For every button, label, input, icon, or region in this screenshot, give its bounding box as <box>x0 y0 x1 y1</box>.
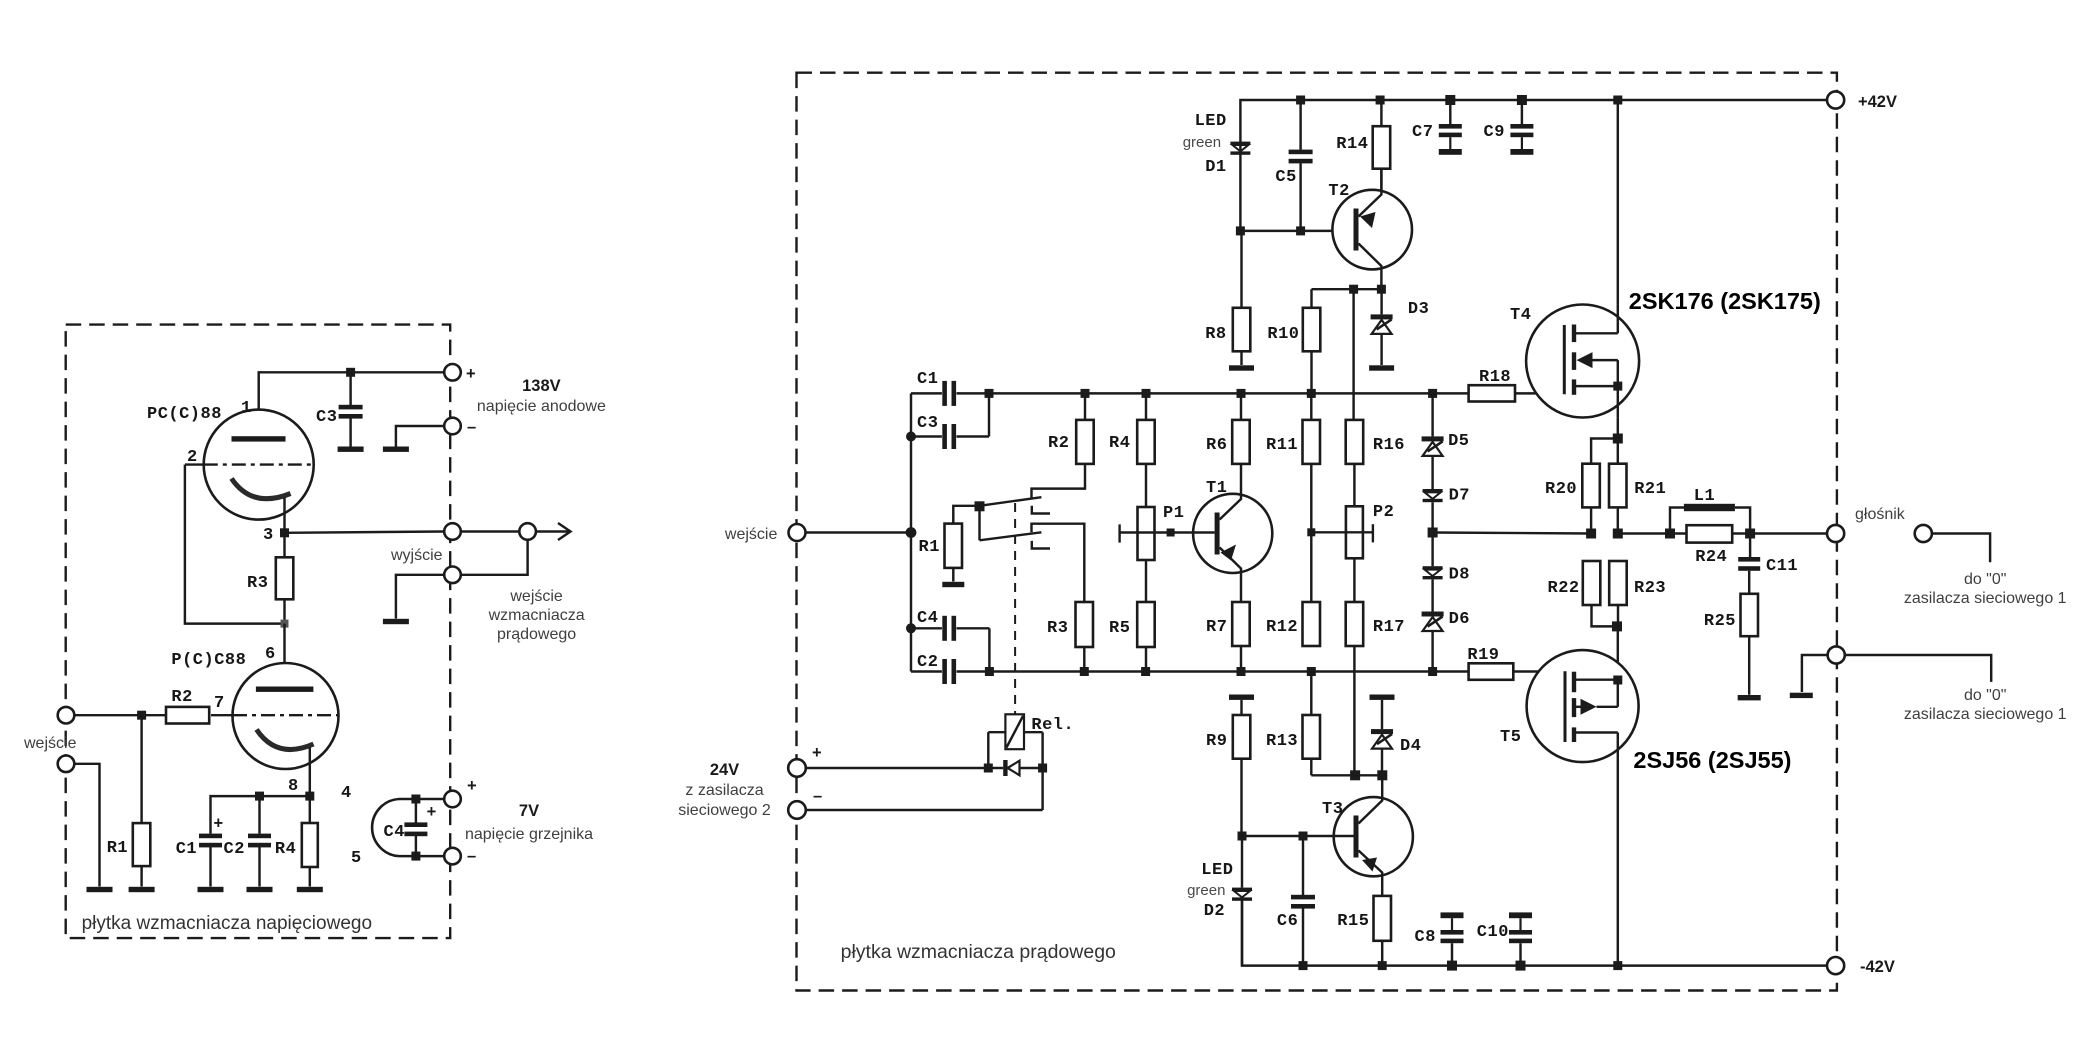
wire anode supply rail <box>259 372 445 436</box>
heater wiring pin5 <box>399 855 445 857</box>
node 8 <box>305 792 314 801</box>
svg-text:T3: T3 <box>1322 800 1343 819</box>
node diode column bottom <box>1428 667 1437 676</box>
svg-text:R3: R3 <box>1047 619 1068 638</box>
resistor R5 <box>1145 560 1147 602</box>
diode D6 zener <box>1422 612 1444 617</box>
svg-text:C2: C2 <box>917 653 938 672</box>
capacitor C2 <box>258 796 260 833</box>
svg-text:płytka wzmacniacza prądowego: płytka wzmacniacza prądowego <box>841 941 1116 963</box>
resistor R17 <box>1353 558 1355 602</box>
resistor R7 <box>1232 602 1250 646</box>
wire contact 2 to R3 <box>1032 524 1085 602</box>
wire D8 to D6 <box>1431 579 1433 611</box>
resistor R4 <box>309 796 311 823</box>
resistor R4b <box>1145 393 1147 420</box>
capacitor C11 <box>1749 534 1751 558</box>
svg-text:C3: C3 <box>316 408 337 427</box>
resistor R1b <box>953 506 975 524</box>
tube V1 PC(C)88 envelope <box>204 410 314 520</box>
svg-text:do "0": do "0" <box>1964 571 2007 588</box>
svg-text:prądowego: prądowego <box>497 626 576 643</box>
svg-text:–: – <box>467 847 476 865</box>
wire lower terminal to ground <box>396 575 444 619</box>
svg-text:R4: R4 <box>275 840 296 859</box>
wire T2 collector to R10 R16 <box>1312 288 1382 290</box>
svg-text:T4: T4 <box>1510 306 1531 325</box>
node C4 left <box>906 623 916 633</box>
capacitor C1 <box>942 381 947 406</box>
wire -42V rail <box>1242 899 1827 966</box>
svg-text:wejście: wejście <box>509 588 563 605</box>
wire to R20 <box>1591 439 1618 464</box>
wire cathode V2 to node 8 <box>309 748 311 797</box>
svg-text:R25: R25 <box>1704 612 1736 631</box>
node R2 top <box>1081 389 1090 398</box>
resistor R13 <box>1310 672 1312 716</box>
wire C4 down to bus <box>988 628 990 671</box>
wire output arrow <box>536 530 569 532</box>
tube V2 cathode <box>257 730 314 750</box>
svg-text:D1: D1 <box>1205 158 1226 177</box>
resistor R15 <box>1374 896 1392 941</box>
terminal anode + <box>444 364 461 381</box>
node T5 top <box>1612 621 1622 631</box>
resistor R10 <box>1303 308 1321 352</box>
resistor R14 <box>1380 100 1382 126</box>
svg-text:do "0": do "0" <box>1964 687 2007 704</box>
svg-text:D3: D3 <box>1408 300 1429 319</box>
node R3 bottom <box>1080 667 1089 676</box>
node input R1 <box>137 711 146 720</box>
svg-text:D5: D5 <box>1448 432 1469 451</box>
ground C3 <box>338 447 364 452</box>
wire 24V minus <box>806 809 1043 811</box>
wire relay common <box>978 506 980 540</box>
resistor R19 <box>1469 663 1514 680</box>
svg-text:wejście: wejście <box>724 526 778 543</box>
junction C4 bottom <box>411 852 420 861</box>
svg-text:R12: R12 <box>1266 618 1298 637</box>
wire input2 to ground <box>74 764 99 887</box>
capacitor C4 polarized <box>415 799 417 823</box>
resistor R1 <box>140 715 142 823</box>
svg-text:P1: P1 <box>1163 504 1184 523</box>
svg-text:6: 6 <box>265 645 276 664</box>
svg-text:C5: C5 <box>1275 168 1296 187</box>
svg-text:138V: 138V <box>522 377 561 395</box>
svg-text:C2: C2 <box>224 840 245 859</box>
LED D1 <box>1239 142 1241 153</box>
terminal input ground side <box>58 756 75 773</box>
wire R16 column <box>1352 289 1354 420</box>
ground R1 <box>129 887 155 892</box>
relay contact common node <box>975 501 985 511</box>
node T4 drain rail <box>1613 96 1622 105</box>
node L1 left <box>1665 529 1675 539</box>
svg-text:green: green <box>1183 134 1221 151</box>
capacitor C10 <box>1509 912 1532 918</box>
wire R18 to T4 gate <box>1515 392 1564 394</box>
node diode column top <box>1428 389 1437 398</box>
svg-text:R5: R5 <box>1109 619 1130 638</box>
resistor R3 <box>283 533 285 558</box>
wire gate bus upper <box>911 392 942 394</box>
node R3 bottom <box>281 620 289 628</box>
terminal to current amp <box>444 567 461 584</box>
transistor T1 <box>1193 494 1272 573</box>
svg-text:5: 5 <box>351 849 362 868</box>
wire D2 to rail <box>1241 901 1243 966</box>
node C3 left <box>906 432 916 442</box>
terminal wejscie <box>789 524 806 541</box>
wire D6 to lower bus <box>1431 631 1433 672</box>
wire T4 drain to rail <box>1617 100 1619 305</box>
svg-text:T2: T2 <box>1328 182 1349 201</box>
terminal +42V <box>1827 91 1844 108</box>
heater wiring pin4 <box>399 798 445 800</box>
node relay + right <box>1038 764 1047 773</box>
LED D2 <box>1241 836 1243 888</box>
svg-text:R19: R19 <box>1467 646 1499 665</box>
wire output to lower terminal <box>461 540 528 575</box>
node C2 right <box>985 667 994 676</box>
svg-text:zasilacza sieciowego 1: zasilacza sieciowego 1 <box>1904 706 2067 723</box>
svg-text:LED: LED <box>1201 861 1233 880</box>
relay Rel. <box>1014 503 1016 714</box>
svg-text:C4: C4 <box>384 823 405 842</box>
diode column wire top <box>1431 393 1433 436</box>
node relay + left <box>984 764 993 773</box>
wire R17 down <box>1353 646 1355 775</box>
resistor R18 <box>1469 385 1515 401</box>
node R17 bottom <box>1350 770 1360 780</box>
svg-text:R18: R18 <box>1479 368 1511 387</box>
ground C1 <box>198 887 224 892</box>
svg-text:zasilacza sieciowego 1: zasilacza sieciowego 1 <box>1904 590 2067 607</box>
svg-text:z zasilacza: z zasilacza <box>685 782 763 799</box>
node R6 top <box>1237 389 1246 398</box>
node C8 rail <box>1447 961 1457 971</box>
svg-text:R14: R14 <box>1336 135 1368 154</box>
resistor R23 <box>1609 561 1627 605</box>
svg-text:wejście: wejście <box>23 735 77 752</box>
terminal heater minus <box>444 848 461 865</box>
ground D3 <box>1369 365 1394 370</box>
ground R1b <box>942 582 964 587</box>
wire T5 source column <box>1617 626 1619 680</box>
tube V2 P(C)C88 envelope <box>233 663 339 769</box>
node D4 bottom <box>1377 770 1387 780</box>
svg-text:R9: R9 <box>1206 732 1227 751</box>
transistor T2 <box>1332 190 1412 270</box>
node C5 bottom <box>1296 226 1305 235</box>
resistor R20 <box>1582 464 1600 508</box>
svg-text:T1: T1 <box>1206 479 1227 498</box>
ground R25 <box>1738 695 1761 700</box>
node C7 rail <box>1445 95 1455 105</box>
node diode column output <box>1428 528 1438 538</box>
wire C3 up to bus <box>988 393 990 436</box>
svg-text:R8: R8 <box>1205 325 1226 344</box>
svg-text:R1: R1 <box>107 839 128 858</box>
wire D1 to base bus <box>1239 154 1241 231</box>
node R21 bottom <box>1613 529 1623 539</box>
svg-text:PC(C)88: PC(C)88 <box>147 405 222 424</box>
node T4 source R20 R21 <box>1613 434 1623 444</box>
capacitor C6 <box>1302 836 1304 895</box>
svg-text:+: + <box>214 815 224 833</box>
wire R22 R23 join <box>1592 605 1618 626</box>
svg-text:napięcie anodowe: napięcie anodowe <box>477 398 606 415</box>
transistor T3 <box>1334 797 1413 876</box>
wire lower bus <box>911 670 942 672</box>
ground R8 <box>1229 365 1254 370</box>
node R12 bottom <box>1307 667 1316 676</box>
wire 24V plus <box>806 767 1004 769</box>
wire T3 base bus <box>1242 835 1354 837</box>
terminal input <box>58 707 75 724</box>
svg-text:R11: R11 <box>1266 436 1298 455</box>
capacitor C2b <box>942 659 947 684</box>
svg-text:R13: R13 <box>1266 732 1298 751</box>
svg-text:wyjście: wyjście <box>390 547 443 564</box>
relay contact fixed 1 <box>1032 506 1050 514</box>
wire wyjscie to pass-through <box>461 530 520 532</box>
svg-text:D7: D7 <box>1449 487 1470 506</box>
svg-text:C10: C10 <box>1477 923 1509 942</box>
transistor T5 MOSFET <box>1527 650 1639 762</box>
svg-text:R3: R3 <box>247 574 268 593</box>
svg-text:T5: T5 <box>1500 728 1521 747</box>
svg-text:R22: R22 <box>1548 579 1580 598</box>
node input junction <box>906 527 917 538</box>
relay contact arm 1 <box>980 497 1042 506</box>
node C6 top <box>1299 832 1308 841</box>
wire T4 source down <box>1617 417 1619 463</box>
junction C3 top <box>346 368 355 377</box>
ground R4 <box>297 887 323 892</box>
node R20 bottom <box>1586 529 1596 539</box>
svg-text:R24: R24 <box>1695 548 1727 567</box>
node C10 rail <box>1516 961 1526 971</box>
terminal heater + <box>444 791 461 808</box>
wire R19 to T5 gate <box>1513 670 1565 672</box>
svg-text:–: – <box>467 418 476 436</box>
capacitor C7 <box>1449 100 1451 124</box>
terminal anode minus <box>444 418 461 435</box>
inductor L1 <box>1670 508 1684 534</box>
svg-text:P(C)C88: P(C)C88 <box>171 651 246 670</box>
terminal wyjscie <box>444 523 461 540</box>
svg-text:L1: L1 <box>1694 487 1715 506</box>
wire T5 drain to rail <box>1617 733 1619 966</box>
node T3 base R9 <box>1238 832 1247 841</box>
node R14 rail <box>1376 96 1385 105</box>
svg-text:R15: R15 <box>1337 912 1369 931</box>
wire cathode to node 3 <box>283 497 285 533</box>
junction C4 top <box>411 795 420 804</box>
diode D7 <box>1423 489 1443 492</box>
wire zero terminal lower right <box>1845 655 1991 682</box>
svg-text:7V: 7V <box>519 802 539 820</box>
svg-text:C3: C3 <box>917 414 938 433</box>
capacitor C9 <box>1521 100 1523 124</box>
wire R13 R17 D4 junction <box>1311 774 1382 776</box>
resistor R16 <box>1346 420 1364 464</box>
svg-text:green: green <box>1187 882 1225 899</box>
resistor R8 <box>1240 231 1242 308</box>
wire input column <box>910 393 912 671</box>
node C5 rail <box>1296 96 1305 105</box>
svg-text:głośnik: głośnik <box>1855 506 1906 523</box>
diode D5 zener <box>1422 436 1444 441</box>
node R24 right <box>1745 529 1755 539</box>
svg-text:+: + <box>467 777 477 795</box>
ground input2 <box>87 887 113 892</box>
wire cathode node8 bus <box>211 796 310 833</box>
svg-text:C11: C11 <box>1766 557 1798 576</box>
terminal glosnik <box>1827 525 1844 542</box>
wire zero terminal lower left <box>1802 655 1828 692</box>
terminal 24V minus <box>788 801 806 819</box>
svg-text:R17: R17 <box>1373 618 1405 637</box>
svg-text:3: 3 <box>263 526 274 545</box>
resistor R9 <box>1240 700 1242 715</box>
node T5 source <box>1613 676 1622 685</box>
svg-text:C1: C1 <box>917 370 938 389</box>
svg-text:wzmacniacza: wzmacniacza <box>488 607 585 624</box>
node C9 rail <box>1517 95 1527 105</box>
capacitor C1 polarized <box>199 834 222 839</box>
svg-text:C1: C1 <box>176 840 197 859</box>
node C1 right <box>985 389 994 398</box>
svg-text:R1: R1 <box>919 538 940 557</box>
node R5 bottom <box>1141 667 1150 676</box>
resistor R2 <box>166 707 209 724</box>
svg-text:24V: 24V <box>710 761 739 779</box>
ground C2 <box>247 887 273 892</box>
wire T2 base bus <box>1240 230 1353 232</box>
resistor R24 <box>1687 525 1733 542</box>
svg-text:R7: R7 <box>1206 618 1227 637</box>
svg-text:-42V: -42V <box>1860 958 1895 976</box>
relay contact arm 2 <box>980 532 1042 540</box>
svg-text:LED: LED <box>1195 112 1227 131</box>
potentiometer P1 <box>1145 464 1147 507</box>
svg-text:R6: R6 <box>1206 436 1227 455</box>
node C6 rail <box>1299 961 1308 970</box>
tube V2 anode plate pin6 <box>256 687 314 692</box>
svg-text:–: – <box>813 787 822 805</box>
diode D3 zener <box>1380 289 1382 314</box>
svg-text:2: 2 <box>187 448 198 467</box>
svg-text:R20: R20 <box>1545 480 1577 499</box>
ground output terminal <box>383 619 409 624</box>
capacitor C4b <box>911 627 942 629</box>
svg-text:2SK176 (2SK175): 2SK176 (2SK175) <box>1629 288 1821 314</box>
relay diode <box>1003 760 1007 776</box>
tube V1 anode plate pin1 <box>232 436 286 441</box>
terminal 24V + <box>788 759 806 777</box>
node R7 bottom <box>1237 667 1246 676</box>
svg-text:P2: P2 <box>1373 503 1394 522</box>
capacitor C5 <box>1299 100 1301 150</box>
svg-text:8: 8 <box>288 777 299 796</box>
output pass-through circle <box>519 523 536 540</box>
svg-text:D2: D2 <box>1204 902 1225 921</box>
node R10 bottom <box>1307 389 1316 398</box>
resistor R21 <box>1609 464 1627 508</box>
svg-text:1: 1 <box>241 399 252 418</box>
diode D8 <box>1423 566 1443 569</box>
svg-text:2SJ56 (2SJ55): 2SJ56 (2SJ55) <box>1633 747 1791 773</box>
node R4 top <box>1142 389 1151 398</box>
wire input (right board) <box>806 531 912 533</box>
svg-text:napięcie grzejnika: napięcie grzejnika <box>465 826 593 843</box>
capacitor C8 <box>1441 912 1464 918</box>
svg-text:D4: D4 <box>1400 737 1421 756</box>
capacitor C3 <box>349 372 351 405</box>
wire +42V rail <box>1240 100 1827 142</box>
resistor R3b <box>1076 602 1094 647</box>
ground D4 above <box>1370 695 1395 700</box>
svg-text:+: + <box>466 365 476 383</box>
tube V2 grid pin7 dashed <box>233 714 339 716</box>
relay coil stubs <box>988 731 1005 733</box>
node T4 source <box>1613 382 1622 391</box>
svg-text:4: 4 <box>341 784 352 803</box>
wire output feedback line <box>1433 533 1592 534</box>
ground zero lower <box>1790 693 1813 698</box>
terminal glosnik return <box>1915 525 1932 542</box>
capacitor C3b <box>911 435 942 437</box>
resistor R6 <box>1240 393 1242 420</box>
svg-text:R21: R21 <box>1634 480 1666 499</box>
svg-text:C6: C6 <box>1277 912 1298 931</box>
svg-text:D6: D6 <box>1449 610 1470 629</box>
node T5 drain rail <box>1613 961 1622 970</box>
svg-text:R4: R4 <box>1109 434 1130 453</box>
transistor T4 MOSFET <box>1526 305 1639 418</box>
svg-text:+: + <box>427 803 437 821</box>
wire R3 to V2 anode <box>283 624 285 687</box>
wire input <box>74 714 166 716</box>
wire output to speaker terminal <box>1732 532 1827 534</box>
svg-text:płytka wzmacniacza napięcioweg: płytka wzmacniacza napięciowego <box>82 913 372 934</box>
node R15 rail <box>1378 961 1387 970</box>
svg-text:R2: R2 <box>1048 434 1069 453</box>
wire output node3 to terminal <box>285 532 445 533</box>
node D1 R8 <box>1236 226 1245 235</box>
terminal -42V <box>1827 957 1844 974</box>
svg-text:R23: R23 <box>1634 579 1666 598</box>
voltage amplifier board dashed border <box>66 325 451 939</box>
diode D4 zener <box>1381 700 1383 729</box>
ground R9 above <box>1229 695 1254 700</box>
tube V1 cathode <box>232 479 291 499</box>
node T2 collector <box>1377 285 1386 294</box>
svg-text:D8: D8 <box>1449 566 1470 585</box>
wire D5 to D7 <box>1431 456 1433 489</box>
svg-text:7: 7 <box>214 694 225 713</box>
wire D8 lead <box>1431 533 1433 567</box>
potentiometer P2 <box>1353 464 1355 506</box>
wire minus to ground <box>396 426 444 447</box>
svg-text:+: + <box>812 744 822 762</box>
node 3 <box>280 528 289 537</box>
svg-text:C9: C9 <box>1484 123 1505 142</box>
